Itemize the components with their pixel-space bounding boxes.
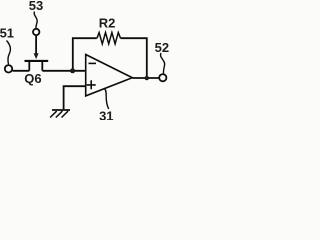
svg-text:52: 52: [155, 40, 169, 55]
svg-text:53: 53: [29, 0, 43, 13]
svg-text:Q6: Q6: [24, 71, 41, 86]
svg-text:51: 51: [0, 25, 14, 40]
svg-text:R2: R2: [99, 16, 116, 31]
svg-text:31: 31: [99, 108, 113, 120]
